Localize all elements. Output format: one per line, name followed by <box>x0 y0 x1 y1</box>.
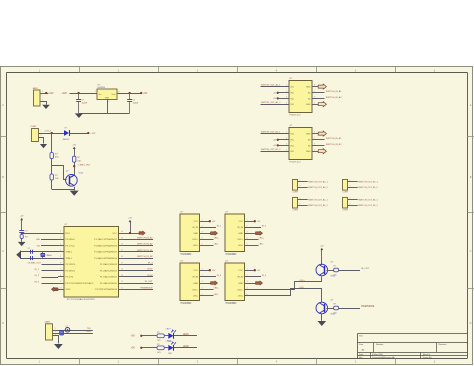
svg-text:Sheet of: Sheet of <box>423 353 431 356</box>
svg-text:3: 3 <box>247 281 248 283</box>
wire U5 GND <box>200 233 211 235</box>
svg-text:SWITCH_IN_A2: SWITCH_IN_A2 <box>137 243 153 246</box>
svg-text:SWITCH_IN_B2: SWITCH_IN_B2 <box>326 144 342 146</box>
svg-text:LED+: LED+ <box>237 289 243 291</box>
wire MCU net SWITCH_IN_B1 <box>125 251 154 253</box>
svg-text:LED+: LED+ <box>259 238 265 240</box>
ground at reset <box>18 242 26 246</box>
wire CON? pin1 <box>348 180 358 182</box>
wire XTAL2 <box>21 251 58 253</box>
node U4 pin2 <box>277 139 279 141</box>
node U3 pin3 <box>277 97 279 99</box>
svg-text:A: A <box>470 103 472 107</box>
wire +5V to R (LED2) <box>141 347 157 349</box>
svg-text:+5V: +5V <box>143 93 148 95</box>
port GND arrow (MCU) <box>51 287 58 291</box>
wire SWITCH_OUT_A1_1 <box>261 86 290 88</box>
svg-text:100: 100 <box>333 312 336 314</box>
svg-text:1: 1 <box>300 180 301 182</box>
svg-text:Vout: Vout <box>111 93 115 96</box>
LED LED2 <box>166 341 176 356</box>
svg-text:VCC: VCC <box>238 270 243 272</box>
svg-text:File:: File: <box>359 357 363 359</box>
MCU U1 body <box>64 224 119 297</box>
svg-text:XTAL1: XTAL1 <box>66 257 73 260</box>
node LINE1_OUT <box>73 165 75 167</box>
wire CON? pin1 <box>298 198 308 200</box>
port arrow U4 pin5 <box>318 149 326 154</box>
svg-text:GND: GND <box>66 289 71 291</box>
wire Q1 emitter <box>74 187 76 191</box>
svg-text:GND: GND <box>238 233 243 235</box>
svg-text:+12V_1: +12V_1 <box>44 130 52 132</box>
svg-text:LED+: LED+ <box>192 239 198 241</box>
svg-text:SWITCH_IN_B1: SWITCH_IN_B1 <box>137 250 153 252</box>
svg-text:1: 1 <box>202 219 203 221</box>
svg-text:1: 1 <box>300 198 301 200</box>
ground at Q1 <box>70 191 79 196</box>
wire U6 GND <box>245 233 256 235</box>
connector CON? body <box>293 180 298 191</box>
wire R to LED (LED2) <box>164 347 168 349</box>
svg-text:1: 1 <box>247 219 248 221</box>
svg-text:P3.2/INT0: P3.2/INT0 <box>66 264 76 266</box>
svg-text:STC12C2052AD-35I-PDIP20: STC12C2052AD-35I-PDIP20 <box>67 298 96 301</box>
wire U5 VCC <box>200 221 210 223</box>
svg-text:LED-: LED- <box>238 296 243 298</box>
svg-text:SWITCH_OUT_B1_1: SWITCH_OUT_B1_1 <box>358 200 378 202</box>
svg-text:19: 19 <box>121 237 123 239</box>
svg-text:+5V: +5V <box>320 246 324 248</box>
svg-text:PC817-2CI: PC817-2CI <box>290 161 301 163</box>
svg-text:3: 3 <box>118 91 119 93</box>
svg-text:1: 1 <box>95 91 96 93</box>
connector J1 (JACK) <box>33 87 41 106</box>
wire U7 IR <box>200 276 217 278</box>
wire U5 LED+ <box>200 239 214 241</box>
IR receiver U7 pin names <box>192 268 202 297</box>
svg-text:2: 2 <box>300 185 301 187</box>
svg-text:B: B <box>470 175 472 179</box>
resistor R5 labels <box>333 266 336 277</box>
svg-text:RST: RST <box>66 233 71 235</box>
svg-text:+5V: +5V <box>128 218 132 220</box>
svg-text:XTAL2: XTAL2 <box>66 251 73 254</box>
connector CON? body <box>293 197 298 208</box>
wire U2 GND pin <box>107 100 109 114</box>
wire U6 IR <box>245 227 262 229</box>
svg-text:15: 15 <box>121 262 123 264</box>
optocoupler U4 body <box>289 125 312 159</box>
wire MCU net IR_OUT <box>125 283 154 285</box>
power port +5V (Q2) <box>321 250 323 259</box>
resistor R (LED2) <box>157 344 164 354</box>
svg-text:IR_OUT: IR_OUT <box>145 281 154 283</box>
svg-text:+5V: +5V <box>257 221 261 223</box>
resistor R3 <box>73 156 82 162</box>
svg-text:14: 14 <box>121 269 123 271</box>
svg-text:3: 3 <box>247 231 248 233</box>
node +5V (LED LED1) <box>140 335 142 337</box>
svg-text:D: D <box>470 321 472 325</box>
svg-text:P1.0/ADC0/SEG0: P1.0/ADC0/SEG0 <box>100 282 118 285</box>
wire IR_2 <box>42 277 59 279</box>
svg-text:SWITCH_IN_A1: SWITCH_IN_A1 <box>137 236 153 239</box>
connector CON? body <box>343 197 348 208</box>
wire U3 pin2 <box>278 92 289 94</box>
wire CON2 pin1 <box>39 131 65 134</box>
wire CON2 pin2 stub <box>39 135 44 144</box>
power port +5V (reset) <box>21 220 23 230</box>
svg-text:SWITCH_OUT_A1_1: SWITCH_OUT_A1_1 <box>261 84 281 87</box>
node +5V (LED LED2) <box>140 347 142 349</box>
wire SWITCH_OUT_A1_2 <box>261 104 290 106</box>
svg-text:SWITCH_OUT_A1_2: SWITCH_OUT_A1_2 <box>261 101 281 104</box>
svg-text:2: 2 <box>42 99 43 101</box>
wire Q3 base <box>326 308 333 310</box>
wire TxD <box>41 245 58 247</box>
svg-text:LED2: LED2 <box>183 346 189 348</box>
svg-text:SWITCH_OUT_B1_2: SWITCH_OUT_B1_2 <box>261 149 281 151</box>
wire UART pin2 <box>53 331 93 333</box>
wire R to LED (LED1) <box>164 335 168 337</box>
connector CON? body <box>343 180 348 191</box>
svg-text:5: 5 <box>314 149 315 151</box>
wire J1 pin2 stub <box>41 99 47 104</box>
port arrow U8 GND <box>256 281 263 285</box>
svg-text:P3.7/INT3/PWM/SEG8: P3.7/INT3/PWM/SEG8 <box>95 289 118 291</box>
svg-text:2: 2 <box>60 237 61 239</box>
wire UART pin3 <box>53 334 59 344</box>
svg-text:3: 3 <box>202 281 203 283</box>
port VCC arrow <box>139 231 145 235</box>
wire U6 LED+ <box>245 239 259 241</box>
ground at crystal <box>16 251 20 259</box>
svg-text:11: 11 <box>121 287 123 289</box>
svg-text:SWITCH_IN_B2: SWITCH_IN_B2 <box>137 256 153 258</box>
resistor R1 <box>50 153 59 159</box>
svg-text:IR_IN: IR_IN <box>192 227 198 229</box>
svg-text:P1.3/ADC3/SEG3: P1.3/ADC3/SEG3 <box>100 263 118 266</box>
component B1 (round) <box>65 328 70 333</box>
svg-text:LINE1_OUT: LINE1_OUT <box>79 165 92 167</box>
junction VCC <box>129 232 131 234</box>
svg-text:IR_IN: IR_IN <box>192 277 198 279</box>
svg-text:LED-: LED- <box>214 294 219 296</box>
capacitor C4 <box>28 248 33 254</box>
transistor Q1 9013 <box>66 170 84 186</box>
wire SWITCH_IN_A2 <box>312 98 325 100</box>
node after D1 <box>87 132 89 134</box>
svg-text:13: 13 <box>121 275 123 277</box>
svg-text:100: 100 <box>333 274 336 276</box>
wire SWITCH_IN_B2 <box>312 145 325 147</box>
svg-text:A: A <box>2 103 4 107</box>
svg-text:+5V: +5V <box>212 270 216 272</box>
node U4 pin3 <box>277 144 279 146</box>
svg-text:LED+: LED+ <box>214 288 220 290</box>
wire bottom to emitter <box>52 189 74 191</box>
svg-text:VCC: VCC <box>238 221 243 223</box>
svg-text:CON?: CON? <box>343 210 349 212</box>
svg-text:GND: GND <box>105 98 110 100</box>
svg-text:PC817-2CI: PC817-2CI <box>290 114 301 116</box>
svg-text:P1.6/ADC6/PWM/SEG6: P1.6/ADC6/PWM/SEG6 <box>94 244 118 247</box>
wire U7 VCC <box>200 270 210 272</box>
svg-text:2: 2 <box>350 203 351 205</box>
svg-text:P3.4/T0: P3.4/T0 <box>66 277 74 279</box>
svg-text:LED+: LED+ <box>237 239 243 241</box>
svg-text:100uF: 100uF <box>133 102 139 104</box>
ground rail <box>79 113 130 115</box>
svg-text:P3.3/INT1: P3.3/INT1 <box>66 270 76 272</box>
wire RxD <box>41 239 58 241</box>
svg-text:C?: C? <box>28 248 30 250</box>
svg-text:2: 2 <box>350 185 351 187</box>
svg-text:RxD: RxD <box>36 239 41 241</box>
port arrow U5 GND <box>211 231 218 235</box>
svg-text:4: 4 <box>60 250 61 252</box>
power port +5V (MCU VCC) <box>130 222 132 233</box>
svg-text:HS0038B2: HS0038B2 <box>226 254 238 256</box>
wire CON? pin2 <box>348 185 358 187</box>
IR receiver U6 body <box>225 212 245 252</box>
svg-text:18: 18 <box>121 244 123 246</box>
svg-text:10: 10 <box>60 287 62 289</box>
svg-text:2: 2 <box>202 225 203 227</box>
svg-text:7: 7 <box>60 269 61 271</box>
svg-text:GND: GND <box>193 283 198 285</box>
svg-text:5: 5 <box>247 243 248 245</box>
svg-text:20: 20 <box>121 231 123 233</box>
wire U7 LED- <box>200 295 214 297</box>
svg-text:D: D <box>2 321 4 325</box>
wire U3 pin3 <box>278 98 289 100</box>
svg-text:IR_IN: IR_IN <box>237 277 243 279</box>
svg-text:1N4007: 1N4007 <box>63 139 71 141</box>
resistor R2 <box>50 174 59 180</box>
wire CON? pin2 <box>298 185 308 187</box>
svg-text:LED?: LED? <box>166 329 172 331</box>
svg-text:LED2: LED2 <box>147 275 153 277</box>
svg-text:SWITCH_OUT_B1_1: SWITCH_OUT_B1_1 <box>358 182 378 184</box>
svg-text:IR_IN: IR_IN <box>237 227 243 229</box>
wire IR_3 <box>42 283 59 285</box>
wire U3 pin5 <box>312 104 318 106</box>
svg-text:Date:: Date: <box>359 353 364 356</box>
wire R2 to bottom <box>51 180 53 189</box>
IR receiver U8 body <box>225 261 245 301</box>
svg-text:SWITCH_OUT_A1_2: SWITCH_OUT_A1_2 <box>308 204 328 207</box>
svg-text:+5V: +5V <box>131 336 136 338</box>
IR receiver U5 body <box>180 212 200 252</box>
title block text <box>359 335 447 359</box>
svg-text:VCC: VCC <box>193 221 198 223</box>
wire reset node <box>22 232 59 234</box>
diode D1 1N4007 <box>63 128 71 141</box>
wire R1 to R2 <box>51 159 53 175</box>
svg-text:2: 2 <box>55 331 56 333</box>
svg-text:SWITCH_OUT_A1_1: SWITCH_OUT_A1_1 <box>308 199 328 202</box>
wire LED- to Q3 <box>245 289 322 303</box>
svg-text:LED1: LED1 <box>147 269 153 271</box>
wire U5 IR <box>200 227 217 229</box>
svg-text:TxD: TxD <box>36 245 40 247</box>
wire VCC row <box>125 233 140 235</box>
node U3 pin2 <box>277 92 279 94</box>
wire UART pin1 <box>53 328 93 331</box>
svg-text:Number: Number <box>376 343 384 346</box>
wire XTAL1 <box>21 258 58 260</box>
svg-text:VCC: VCC <box>112 233 117 235</box>
svg-text:SWITCH_OUT_A1_1: SWITCH_OUT_A1_1 <box>308 181 328 184</box>
svg-text:LED: LED <box>168 353 172 355</box>
IR receiver U5 pin names <box>192 219 202 247</box>
svg-text:C?: C? <box>65 326 67 328</box>
wire MCU net PWM/MODE <box>125 289 154 291</box>
junction at C2 <box>128 92 130 94</box>
resistor R (LED1) <box>157 332 164 342</box>
capacitor C2 <box>127 93 139 113</box>
wire MCU net LED2 <box>125 276 154 278</box>
svg-text:4: 4 <box>247 237 248 239</box>
svg-text:6: 6 <box>60 262 61 264</box>
svg-text:CON?: CON? <box>343 192 349 194</box>
node U6 VCC <box>254 220 256 222</box>
wire CON? pin2 <box>298 203 308 205</box>
wire U4 pin3 <box>278 145 289 147</box>
optocoupler U3 body <box>289 78 312 112</box>
svg-text:Drawn By:: Drawn By: <box>423 357 433 359</box>
svg-text:LM7805: LM7805 <box>98 87 106 89</box>
svg-text:100uF: 100uF <box>82 102 88 104</box>
svg-text:CON?: CON? <box>293 192 299 194</box>
svg-text:LED-: LED- <box>300 287 305 289</box>
svg-text:GND: GND <box>306 134 311 136</box>
ground at J1 <box>42 105 50 109</box>
wire U4 pin5 <box>312 151 318 153</box>
svg-text:GND: GND <box>306 87 311 89</box>
resistor R4 (reset) <box>20 235 28 239</box>
wire Q3 emitter <box>321 314 323 321</box>
wire D1 to +12V node <box>69 133 88 135</box>
wire MCU net SWITCH_IN_B2 <box>125 258 154 260</box>
svg-text:SWITCH_OUT_B1_2: SWITCH_OUT_B1_2 <box>358 205 378 207</box>
svg-text:LED+: LED+ <box>300 280 306 282</box>
wire +12V to U2 VIN <box>70 93 98 95</box>
resistor R5 (Q2 base) <box>334 268 339 272</box>
transistor Q2 8550 <box>316 261 336 277</box>
wire R4 to ground <box>21 238 23 241</box>
svg-text:VCC: VCC <box>193 270 198 272</box>
regulator U2 LM7805 <box>95 84 119 103</box>
svg-text:SWITCH_IN_A2: SWITCH_IN_A2 <box>326 96 342 99</box>
svg-text:1: 1 <box>350 180 351 182</box>
connector CON2 <box>31 126 39 141</box>
wire LED to label (LED2) <box>174 347 198 349</box>
port arrow U6 GND <box>256 231 263 235</box>
node U8 VCC <box>254 269 256 271</box>
resistor R6 labels <box>333 304 336 315</box>
svg-text:1: 1 <box>350 198 351 200</box>
wire MCU net LED1 <box>125 270 154 272</box>
svg-text:SWITCH_OUT_B1_2: SWITCH_OUT_B1_2 <box>358 187 378 189</box>
wire divider vertical <box>51 133 53 153</box>
svg-text:JACK: JACK <box>33 87 39 90</box>
wire LED to label (LED1) <box>174 335 198 337</box>
wire SWITCH_IN_A1 <box>312 92 325 94</box>
wire J1 pin1 to +12V <box>40 91 48 94</box>
svg-text:17: 17 <box>121 250 123 252</box>
wire MCU net SWITCH_IN_A2 <box>125 245 154 247</box>
port arrow U3 pin8 <box>318 84 326 89</box>
svg-text:LED-: LED- <box>259 244 264 246</box>
ground at rail <box>75 113 83 118</box>
LED LED1 <box>166 329 176 344</box>
svg-text:4: 4 <box>286 102 287 104</box>
transistor Q3 8050 <box>316 299 336 315</box>
wire R5 to IR_OUT <box>338 270 360 272</box>
svg-text:2: 2 <box>247 225 248 227</box>
svg-text:UART: UART <box>45 321 51 324</box>
svg-text:1: 1 <box>247 268 248 270</box>
junction divider top <box>51 132 53 134</box>
svg-text:CON?: CON? <box>293 210 299 212</box>
svg-text:HS0038B2: HS0038B2 <box>181 303 193 305</box>
ground at UART <box>54 344 63 349</box>
svg-text:+5V: +5V <box>257 270 261 272</box>
IR receiver U8 pin names <box>237 268 247 297</box>
crystal X1 <box>41 252 52 258</box>
svg-text:GND: GND <box>306 104 311 106</box>
wire CON? pin1 <box>298 180 308 182</box>
wire U8 GND <box>245 283 256 285</box>
wire base jog <box>52 166 67 180</box>
svg-text:4MHz: 4MHz <box>46 255 51 257</box>
svg-text:SWITCH_OUT_B1_1: SWITCH_OUT_B1_1 <box>261 132 281 134</box>
svg-text:8: 8 <box>60 275 61 277</box>
wire LED+ to Q2 <box>245 277 322 290</box>
zone labels <box>2 68 472 363</box>
svg-text:1: 1 <box>60 231 61 233</box>
wire U5 LED- <box>200 245 214 247</box>
svg-text:GND: GND <box>306 151 311 153</box>
node +5V output <box>140 92 142 94</box>
IR receiver U7 body <box>180 261 200 301</box>
svg-text:TXD: TXD <box>87 328 92 330</box>
svg-text:P1.4/ADC4/PWM/SEG4: P1.4/ADC4/PWM/SEG4 <box>94 257 118 260</box>
wire CON? pin2 <box>348 203 358 205</box>
port arrow U4 pin8 <box>318 131 326 136</box>
svg-text:D:\yuanlitu\MyDesign.ddb: D:\yuanlitu\MyDesign.ddb <box>372 356 396 359</box>
port arrow U3 pin5 <box>318 102 326 107</box>
svg-text:5: 5 <box>314 102 315 104</box>
wire SWITCH_OUT_B1_1 <box>261 133 290 135</box>
wire Q2 emitter <box>321 259 323 266</box>
svg-text:Vin: Vin <box>99 94 102 96</box>
wire R3 to Q1 collector <box>74 162 76 175</box>
wire SWITCH_OUT_B1_2 <box>261 151 290 153</box>
svg-text:3: 3 <box>55 334 56 336</box>
svg-text:LED-: LED- <box>238 245 243 247</box>
svg-text:GND: GND <box>193 233 198 235</box>
inner border frame <box>7 72 468 358</box>
svg-text:1: 1 <box>42 91 43 93</box>
svg-text:SWITCH_IN_A1: SWITCH_IN_A1 <box>326 90 342 93</box>
svg-text:P3.5/T1/PWM/RSTOUT/ADC: P3.5/T1/PWM/RSTOUT/ADC <box>66 282 94 285</box>
svg-text:P3.1/TxD: P3.1/TxD <box>66 245 75 247</box>
svg-text:+5V: +5V <box>212 221 216 223</box>
